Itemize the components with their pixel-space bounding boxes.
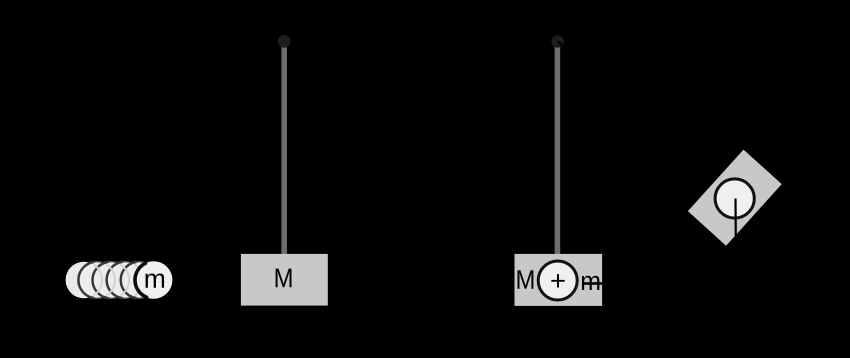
bullet trail arc 2 [78, 262, 93, 298]
bullet trail ghost arc 2 [106, 264, 115, 295]
label + (embedded bullet) [551, 274, 564, 287]
bullet trail ghost arc 1 [94, 264, 103, 295]
block M+m [515, 254, 603, 306]
vertical reference line (block 3) [734, 199, 736, 240]
bullet trail circle 3 [93, 262, 130, 299]
bullet trail arc 5 [121, 262, 136, 298]
embedded bullet circle (block 3) [715, 179, 754, 218]
block M [241, 254, 328, 306]
bullet trail arc 3 [93, 262, 108, 298]
bullet trail circle 2 [78, 262, 115, 299]
bullet trail ghost arc 3 [121, 264, 130, 295]
bullet trail circle 5 [121, 262, 158, 299]
pivot P1 [278, 35, 291, 48]
label m (bullet) [146, 273, 165, 287]
label m (block 2) [582, 276, 599, 290]
rod 2 [555, 41, 561, 254]
label M (block 1) [276, 269, 292, 288]
rod 1 [281, 41, 287, 254]
bullet trail arc 4 [107, 262, 122, 298]
pivot P2 [552, 35, 564, 47]
arrow shaft through m (block 2) [584, 282, 602, 285]
rod 3 (black, visible only as slash across pivot P2) [558, 41, 600, 78]
block 3 (swung up, rotated) [688, 150, 782, 246]
bullet m (front circle) [135, 261, 173, 299]
bullet trail ghost arc 4 [135, 264, 144, 295]
bullet trail circle 4 [107, 262, 144, 299]
bullet trail circle 1 [66, 262, 103, 299]
embedded bullet circle [538, 261, 577, 300]
label M (block 2) [518, 270, 534, 289]
bullet m (front circle) left arc [135, 263, 147, 297]
bullet trail ghost arc 5 [149, 264, 158, 295]
